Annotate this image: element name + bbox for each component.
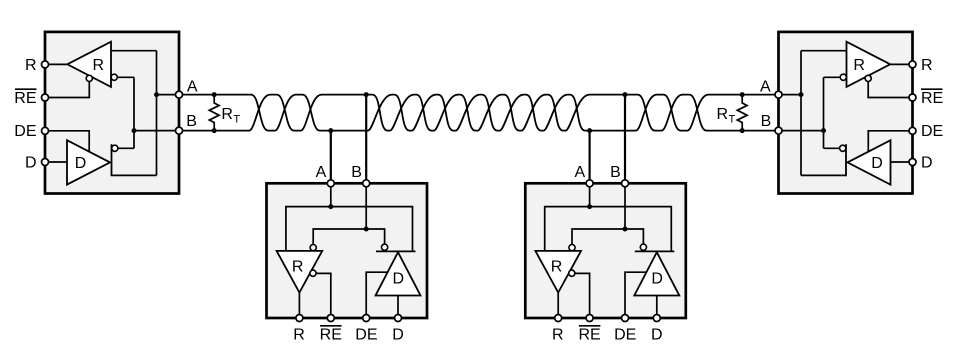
receiver enable bubble (865, 75, 871, 81)
wire B to pin (779, 130, 824, 132)
wire receiver inverting input B (824, 76, 841, 78)
node A junction (799, 92, 804, 97)
receiver enable bubble (569, 270, 575, 276)
pin DE stub (363, 315, 370, 322)
wire vertical B net (823, 77, 825, 148)
wire B pin to lower rail (624, 183, 626, 229)
svg-text:R: R (717, 106, 729, 123)
wire RE pin to receiver enable bubble (575, 273, 590, 318)
transceiver box (779, 32, 913, 194)
wire vertical A net (800, 51, 802, 176)
svg-text:RE: RE (921, 90, 943, 107)
stub transceiver U3 box (267, 183, 428, 318)
node RT left / B junction (212, 128, 217, 133)
pin D (909, 159, 916, 166)
pin R stub (555, 315, 562, 322)
wire receiver input A (801, 50, 847, 52)
svg-text:D: D (392, 327, 404, 344)
node A junction (154, 92, 159, 97)
wire DE pin to driver enable (625, 272, 646, 318)
twisted pair wire B (182, 95, 775, 131)
pin B (176, 127, 183, 134)
node B rail junction (623, 227, 628, 232)
termination resistor RT right (737, 95, 747, 131)
pin DE stub (622, 315, 629, 322)
driver inverting output bubble (382, 244, 388, 250)
wire DE pin to driver enable (868, 131, 912, 153)
wire D pin to driver input (45, 161, 67, 163)
svg-text:RE: RE (320, 327, 342, 344)
svg-text:R: R (921, 57, 933, 74)
wire R pin to receiver output (45, 63, 67, 65)
wire receiver output to R pin (298, 293, 300, 319)
pin RE stub (327, 315, 334, 322)
receiver R triangle (535, 251, 581, 293)
driver D triangle (376, 252, 421, 295)
wire A to pin (779, 94, 802, 96)
svg-text:A: A (316, 164, 327, 181)
svg-text:A: A (187, 79, 198, 96)
svg-text:R: R (551, 259, 563, 276)
node B tap junction (364, 92, 369, 97)
node B tap junction (623, 92, 628, 97)
node B rail junction (364, 227, 369, 232)
node A tap junction (328, 128, 333, 133)
pin A stub (327, 180, 334, 187)
receiver inverting input bubble (310, 245, 316, 251)
node B junction (821, 128, 826, 133)
twisted pair wire A (182, 95, 775, 131)
stub transceiver U4 box (525, 183, 686, 318)
svg-text:A: A (574, 164, 585, 181)
node RT left / A junction (212, 92, 217, 97)
svg-text:R: R (221, 106, 233, 123)
node A rail junction (328, 204, 333, 209)
node A rail junction (587, 204, 592, 209)
node RT right / B junction (740, 128, 745, 133)
wire A pin to upper rail (589, 183, 591, 206)
wire receiver input A (111, 50, 157, 52)
pin A stub (586, 180, 593, 187)
wire RE pin to receiver enable bubble (45, 82, 89, 98)
wire driver output A (801, 174, 846, 176)
svg-text:B: B (610, 164, 621, 181)
wire B tap from bus (365, 95, 367, 184)
wire A pin to upper rail (330, 183, 332, 206)
receiver R triangle (67, 42, 111, 87)
wire B pin to lower rail (365, 183, 367, 229)
pin A (176, 91, 183, 98)
svg-text:T: T (729, 114, 736, 126)
receiver inverting input bubble (569, 245, 575, 251)
driver inverting output bubble (640, 244, 646, 250)
svg-text:D: D (651, 270, 663, 287)
node B junction (132, 128, 137, 133)
wire D pin to driver input (397, 296, 399, 319)
svg-text:D: D (871, 155, 883, 172)
pin A (775, 91, 782, 98)
wire DE pin to driver enable (45, 131, 89, 153)
wire B tap from bus (624, 95, 626, 184)
pin RE (42, 94, 49, 101)
svg-text:D: D (75, 155, 87, 172)
pin R (909, 61, 916, 68)
svg-text:RE: RE (14, 90, 36, 107)
svg-text:DE: DE (921, 123, 943, 140)
pin RE stub (586, 315, 593, 322)
driver output bar (635, 250, 675, 252)
transceiver box (45, 32, 179, 194)
wire vertical B net (133, 77, 135, 148)
wire receiver output to R pin (557, 293, 559, 319)
node RT right / A junction (740, 92, 745, 97)
driver inverting output bubble (112, 145, 118, 151)
wire A tap from bus (588, 131, 590, 184)
driver D triangle (67, 140, 110, 184)
svg-text:DE: DE (14, 123, 36, 140)
driver inverting output bubble (840, 145, 846, 151)
wire driver inverting output B (824, 147, 840, 149)
svg-text:DE: DE (614, 327, 636, 344)
termination resistor RT left (209, 95, 219, 131)
wire DE pin to driver enable (366, 272, 387, 318)
pin D (42, 159, 49, 166)
pin R stub (296, 315, 303, 322)
svg-text:R: R (293, 327, 305, 344)
lower rail B net (313, 229, 384, 244)
svg-text:D: D (393, 270, 405, 287)
svg-text:D: D (25, 154, 37, 171)
svg-text:R: R (93, 57, 105, 74)
wire driver inverting output B (118, 147, 134, 149)
upper rail A net (545, 207, 672, 252)
receiver inverting input bubble (840, 74, 846, 80)
node A tap junction (587, 128, 592, 133)
svg-text:A: A (760, 79, 771, 96)
lower rail B net (572, 229, 643, 244)
wire R pin to receiver output (890, 63, 912, 65)
svg-text:B: B (351, 164, 362, 181)
svg-text:D: D (921, 154, 933, 171)
wire RE pin to receiver enable bubble (316, 273, 331, 318)
wire receiver inverting input B (117, 76, 134, 78)
wire driver output A (112, 174, 157, 176)
pin DE (42, 127, 49, 134)
pin D stub (653, 315, 660, 322)
wire vertical A net (156, 51, 158, 176)
svg-text:R: R (25, 57, 37, 74)
svg-text:R: R (853, 57, 865, 74)
upper rail A net (286, 207, 413, 252)
wire D pin to driver input (891, 161, 913, 163)
svg-text:RE: RE (578, 327, 600, 344)
wire B to pin (134, 130, 179, 132)
pin B stub (363, 180, 370, 187)
svg-text:R: R (552, 327, 564, 344)
receiver R triangle (277, 251, 323, 293)
wire A tap from bus (330, 131, 332, 184)
driver D triangle (848, 140, 891, 184)
pin B stub (622, 180, 629, 187)
pin DE (909, 127, 916, 134)
receiver enable bubble (310, 270, 316, 276)
pin RE (909, 94, 916, 101)
wire RE pin to receiver enable bubble (868, 82, 912, 98)
receiver inverting input bubble (111, 74, 117, 80)
receiver enable bubble (86, 75, 92, 81)
svg-text:B: B (761, 113, 772, 130)
svg-text:B: B (186, 113, 197, 130)
svg-text:DE: DE (355, 327, 377, 344)
driver output bar (845, 144, 847, 176)
driver output bar (376, 250, 416, 252)
pin D stub (395, 315, 402, 322)
svg-text:R: R (292, 259, 304, 276)
pin R (42, 61, 49, 68)
svg-text:T: T (233, 114, 240, 126)
driver output bar (111, 144, 113, 176)
wire D pin to driver input (656, 296, 658, 319)
svg-text:D: D (651, 327, 663, 344)
wire A to pin (157, 94, 180, 96)
driver D triangle (634, 252, 679, 295)
pin B (775, 127, 782, 134)
receiver R triangle (847, 42, 891, 87)
